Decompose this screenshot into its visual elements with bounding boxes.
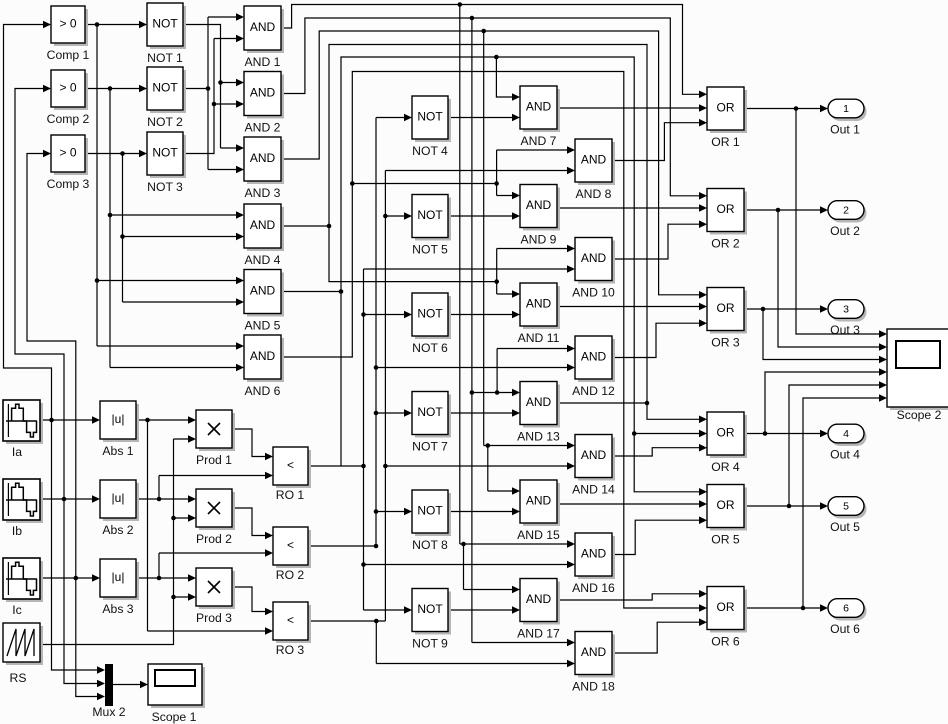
wire net NOT3 out to AND1 AND2 [183, 35, 244, 154]
svg-text:Scope 1: Scope 1 [152, 710, 197, 724]
wire net AND18 out to OR6 [612, 618, 707, 653]
svg-text:Out 5: Out 5 [830, 520, 860, 534]
logical operator AND 9 [520, 185, 560, 231]
wire net Comp1 out to NOT1 AND5 AND6 [85, 21, 244, 350]
svg-text:AND 13: AND 13 [517, 430, 560, 444]
svg-text:AND 2: AND 2 [245, 121, 281, 135]
product block Prod 2 [196, 489, 235, 530]
svg-text:1: 1 [843, 103, 849, 115]
svg-text:Comp 2: Comp 2 [47, 112, 90, 126]
abs block Abs 2 [100, 480, 139, 521]
svg-text:OR 1: OR 1 [711, 135, 740, 149]
svg-text:OR: OR [717, 301, 735, 315]
wire net AND2 bus2 to OR2 [281, 16, 707, 200]
logical operator OR 3 [707, 288, 747, 334]
logical operator NOT 2 [147, 67, 186, 113]
svg-text:Prod 1: Prod 1 [196, 453, 232, 467]
output port Out 2 [828, 201, 867, 223]
logical operator AND 7 [520, 86, 560, 132]
svg-text:NOT: NOT [152, 81, 178, 95]
svg-text:AND 3: AND 3 [245, 186, 281, 200]
svg-text:OR 3: OR 3 [711, 336, 740, 350]
wire net OR4 out to Out4 and Scope2 [744, 368, 887, 437]
svg-text:Out 3: Out 3 [830, 323, 860, 337]
logical operator OR 6 [707, 587, 747, 633]
wire net bus2 tap to AND12 AND13 AND18 [470, 18, 575, 646]
svg-text:|u|: |u| [112, 570, 125, 584]
wire net Comp2 out to NOT2 AND4 AND6 [85, 85, 244, 372]
logical operator OR 2 [707, 189, 747, 235]
wire net AND1 bus1 to OR1 [281, 2, 707, 98]
wire net Prod2 out to RO2 [232, 508, 273, 539]
abs block Abs 3 [100, 559, 139, 600]
comparator Comp 1 [51, 6, 88, 46]
wire net AND5 bus5 to OR5 OR4 [281, 55, 707, 496]
logical operator AND 5 [244, 270, 284, 317]
source block RS sawtooth [3, 623, 43, 665]
source block Ib current [3, 479, 43, 523]
svg-text:AND: AND [581, 645, 607, 659]
svg-text:2: 2 [843, 205, 849, 217]
logical operator NOT 9 [412, 589, 451, 635]
wire net NOT1 out to AND2 AND3 [183, 25, 244, 152]
logical operator NOT 6 [412, 293, 451, 339]
wire net AND4 bus4 to OR4 and branch [281, 45, 707, 424]
svg-text:3: 3 [843, 304, 849, 316]
wire net Mux2 out to Scope1 [113, 681, 148, 689]
wire net RS out to Prod1 Prod2 Prod3 [40, 435, 196, 644]
svg-text:AND: AND [526, 494, 552, 508]
svg-text:AND 7: AND 7 [521, 134, 557, 148]
wire net AND10 out to OR2 [612, 220, 707, 259]
svg-text:Prod 3: Prod 3 [196, 611, 232, 625]
svg-text:NOT: NOT [417, 208, 443, 222]
svg-text:AND 16: AND 16 [572, 581, 615, 595]
scope block Scope 1 [148, 664, 205, 708]
svg-text:Abs 2: Abs 2 [102, 523, 133, 537]
svg-text:OR 5: OR 5 [711, 533, 740, 547]
wire net bus1 tap to AND16 AND17 [460, 5, 575, 594]
wire net NOT9 out to AND17 [448, 606, 520, 614]
logical operator OR 4 [707, 412, 747, 458]
wire net OR3 out to Out3 and Scope2 [744, 305, 887, 363]
wire net OR1 out to Out1 and Scope2 [744, 105, 887, 338]
wire net bus5 tap to AND7 [496, 57, 520, 101]
output port Out 4 [828, 424, 867, 446]
wire net bus3 tap to AND14 AND15 [484, 31, 575, 495]
wire net AND9 out to OR2 [557, 204, 707, 212]
logical operator NOT 4 [412, 96, 451, 142]
svg-text:NOT 5: NOT 5 [412, 243, 448, 257]
svg-text:Comp 1: Comp 1 [47, 48, 90, 62]
svg-text:AND 1: AND 1 [245, 55, 281, 69]
wire net Ib out to Abs2 [40, 495, 100, 503]
logical operator AND 16 [575, 533, 615, 579]
svg-text:> 0: > 0 [59, 17, 76, 31]
svg-text:Ic: Ic [12, 603, 21, 617]
wire net Abs1 out to Prod1 and RO3 [136, 416, 273, 635]
logical operator OR 5 [707, 485, 747, 531]
svg-text:AND: AND [581, 153, 607, 167]
source block Ia current [3, 400, 43, 444]
svg-text:AND: AND [250, 349, 276, 363]
abs block Abs 1 [100, 401, 139, 442]
svg-text:> 0: > 0 [59, 81, 76, 95]
svg-text:AND 4: AND 4 [245, 253, 281, 267]
svg-text:OR: OR [717, 426, 735, 440]
svg-text:NOT 4: NOT 4 [412, 144, 448, 158]
svg-text:OR: OR [717, 600, 735, 614]
svg-text:NOT 1: NOT 1 [147, 51, 183, 65]
output port Out 1 [828, 99, 867, 121]
svg-text:Ia: Ia [12, 445, 22, 459]
svg-text:NOT 3: NOT 3 [147, 180, 183, 194]
svg-text:4: 4 [843, 428, 849, 440]
wire net AND14 out to OR4 [612, 444, 707, 456]
mux block Mux 2 [105, 664, 113, 706]
svg-text:NOT: NOT [417, 110, 443, 124]
svg-text:AND: AND [581, 251, 607, 265]
svg-text:NOT: NOT [417, 602, 443, 616]
svg-text:Scope 2: Scope 2 [897, 408, 942, 422]
wire net NOT5 out to AND9 [448, 212, 520, 220]
svg-text:AND 18: AND 18 [572, 680, 615, 694]
wire net AND6 bus6 to OR6 and branch [281, 72, 707, 612]
svg-text:NOT 2: NOT 2 [147, 115, 183, 129]
svg-text:|u|: |u| [112, 491, 125, 505]
wire net RO3 out to AND8 NOT5 AND14 AND18 [308, 167, 575, 668]
svg-text:AND 10: AND 10 [572, 286, 615, 300]
logical operator NOT 1 [147, 3, 186, 49]
logical operator AND 13 [520, 382, 560, 428]
logical operator AND 10 [575, 238, 615, 284]
logical operator AND 2 [244, 72, 284, 119]
logical operator AND 6 [244, 335, 284, 382]
svg-text:Ib: Ib [12, 524, 22, 538]
svg-text:AND: AND [250, 151, 276, 165]
svg-text:AND: AND [526, 592, 552, 606]
svg-text:Abs 3: Abs 3 [102, 602, 133, 616]
logical operator NOT 8 [412, 490, 451, 536]
output port Out 5 [828, 497, 867, 519]
svg-text:<: < [287, 458, 294, 472]
svg-text:NOT 7: NOT 7 [412, 440, 448, 454]
svg-text:<: < [287, 613, 294, 627]
wire net Ic to Comp3 and Mux in3 [27, 150, 105, 701]
svg-text:OR: OR [717, 202, 735, 216]
svg-text:> 0: > 0 [59, 146, 76, 160]
svg-text:AND: AND [250, 20, 276, 34]
svg-text:NOT 6: NOT 6 [412, 341, 448, 355]
comparator Comp 3 [51, 135, 88, 175]
svg-text:Out 6: Out 6 [830, 622, 860, 636]
wire net OR6 out to Out6 and Scope2 [744, 394, 887, 612]
svg-text:6: 6 [843, 603, 849, 615]
wire net NOT8 out to AND15 [448, 508, 520, 516]
svg-text:AND 6: AND 6 [245, 384, 281, 398]
wire net AND16 out to OR5 [612, 516, 707, 554]
svg-text:RO 2: RO 2 [276, 568, 305, 582]
wire net AND11 out to OR3 [557, 303, 707, 311]
logical operator AND 4 [244, 204, 284, 251]
svg-text:NOT 8: NOT 8 [412, 538, 448, 552]
wire net RO1 out to AND10 NOT6 AND16 NOT9 [308, 265, 575, 614]
svg-text:5: 5 [843, 501, 849, 513]
svg-text:AND: AND [581, 547, 607, 561]
wire net AND17 out to OR6 [557, 590, 707, 600]
svg-text:AND: AND [581, 448, 607, 462]
relational operator RO 2 [273, 527, 311, 568]
logical operator AND 8 [575, 139, 615, 185]
logical operator AND 1 [244, 6, 284, 53]
svg-text:RO 3: RO 3 [276, 643, 305, 657]
logical operator OR 1 [707, 87, 747, 133]
logical operator AND 12 [575, 336, 615, 382]
svg-text:NOT: NOT [417, 504, 443, 518]
wire net Ic out to Abs3 [40, 574, 100, 582]
logical operator AND 15 [520, 480, 560, 526]
wire net NOT4 out to AND7 [448, 114, 520, 122]
logical operator AND 14 [575, 435, 615, 481]
svg-text:AND 17: AND 17 [517, 627, 560, 641]
wire net Abs3 out to Prod3 and RO2 [136, 549, 273, 582]
wire net OR2 out to Out2 and Scope2 [744, 206, 887, 351]
svg-text:AND: AND [526, 395, 552, 409]
svg-text:AND 11: AND 11 [518, 331, 560, 345]
svg-text:AND: AND [250, 86, 276, 100]
svg-text:Out 1: Out 1 [830, 123, 860, 137]
svg-text:Out 4: Out 4 [830, 448, 860, 462]
svg-text:NOT: NOT [152, 146, 178, 160]
svg-text:NOT: NOT [417, 307, 443, 321]
product block Prod 3 [196, 568, 235, 609]
wire net Ia out to Abs1 [40, 416, 100, 424]
svg-text:OR: OR [717, 101, 735, 115]
svg-text:RS: RS [10, 671, 27, 685]
wire net Ib to Comp2 and Mux in2 [15, 85, 105, 688]
logical operator AND 17 [520, 579, 560, 625]
logical operator AND 3 [244, 137, 284, 184]
svg-text:AND 15: AND 15 [517, 528, 560, 542]
svg-text:AND 14: AND 14 [572, 483, 615, 497]
comparator Comp 2 [51, 70, 88, 110]
svg-text:Out 2: Out 2 [830, 224, 860, 238]
wire net AND13 out to OR4 [557, 402, 647, 404]
svg-text:AND: AND [250, 218, 276, 232]
svg-text:AND 5: AND 5 [245, 319, 281, 333]
svg-text:AND 8: AND 8 [576, 187, 612, 201]
svg-text:AND 12: AND 12 [572, 384, 615, 398]
svg-text:AND: AND [526, 198, 552, 212]
svg-text:NOT: NOT [417, 405, 443, 419]
logical operator NOT 7 [412, 392, 451, 438]
svg-text:AND: AND [526, 100, 552, 114]
svg-text:OR 4: OR 4 [711, 460, 740, 474]
relational operator RO 1 [273, 447, 311, 488]
wire net Abs2 out to Prod2 and RO1 [136, 472, 273, 503]
svg-text:RO 1: RO 1 [276, 488, 305, 502]
wire net RO2 out to NOT4 AND12 NOT7 NOT8 [308, 114, 575, 549]
output port Out 6 [828, 599, 867, 621]
logical operator NOT 3 [147, 132, 186, 178]
wire net Prod1 out to RO1 [232, 429, 273, 460]
logical operator NOT 5 [412, 195, 451, 241]
wire net AND8 out to OR1 [612, 119, 707, 161]
svg-text:Abs 1: Abs 1 [102, 444, 133, 458]
product block Prod 1 [196, 410, 235, 451]
wire net AND7 out to OR1 [557, 104, 707, 112]
source block Ic current [3, 558, 43, 602]
svg-text:OR 6: OR 6 [711, 635, 740, 649]
svg-text:Prod 2: Prod 2 [196, 532, 232, 546]
svg-text:AND: AND [581, 350, 607, 364]
svg-text:OR 2: OR 2 [711, 237, 740, 251]
logical operator AND 18 [575, 632, 615, 678]
wire net NOT2 out to AND1 AND3 [183, 13, 244, 173]
svg-text:Mux 2: Mux 2 [92, 705, 125, 719]
wire net Comp3 out to NOT3 AND4 AND5 [85, 150, 244, 306]
svg-text:|u|: |u| [112, 412, 125, 426]
wire net AND3 bus3 to OR3 [281, 29, 707, 299]
wire net OR5 out to Out5 and Scope2 [744, 381, 887, 510]
wire net AND12 out to OR3 [612, 319, 707, 357]
svg-text:OR: OR [717, 498, 735, 512]
svg-text:NOT: NOT [152, 17, 178, 31]
svg-text:AND: AND [250, 284, 276, 298]
svg-text:AND 9: AND 9 [521, 233, 557, 247]
wire net AND4 branch to AND10 AND11 [497, 245, 575, 298]
svg-text:<: < [287, 538, 294, 552]
scope block Scope 2 [887, 329, 948, 410]
relational operator RO 3 [273, 602, 311, 643]
svg-text:AND: AND [526, 297, 552, 311]
wire net Prod3 out to RO3 [232, 587, 273, 615]
output port Out 3 [828, 300, 867, 322]
wire net Ia to Comp1 and Mux in1 [4, 21, 106, 674]
wire net AND15 out to OR5 [557, 500, 707, 508]
logical operator AND 11 [520, 283, 560, 329]
wire net NOT6 out to AND11 [448, 311, 520, 319]
wire net AND6 branch to AND8 AND9 [497, 146, 575, 199]
svg-text:NOT 9: NOT 9 [412, 637, 448, 651]
svg-text:Comp 3: Comp 3 [47, 177, 90, 191]
wire net NOT7 out to AND13 [448, 409, 520, 417]
